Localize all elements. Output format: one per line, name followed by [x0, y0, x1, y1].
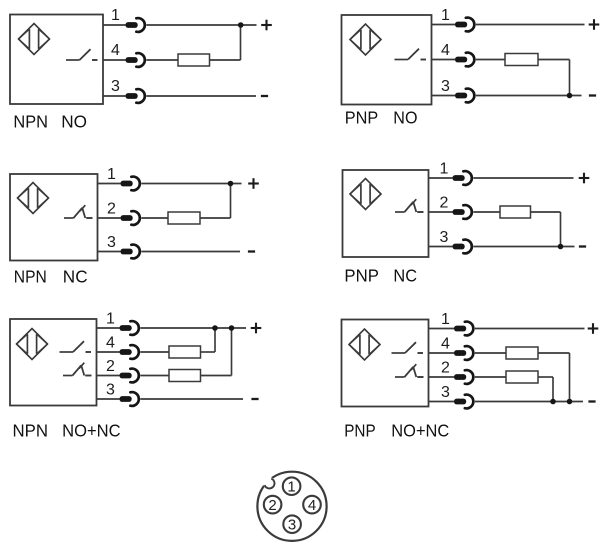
svg-text:NO+NC: NO+NC — [391, 420, 449, 440]
svg-text:NPN: NPN — [14, 267, 47, 287]
svg-text:4: 4 — [441, 42, 450, 59]
svg-text:3: 3 — [441, 384, 450, 401]
svg-text:4: 4 — [308, 497, 316, 514]
svg-text:3: 3 — [441, 78, 450, 95]
svg-text:3: 3 — [440, 229, 449, 246]
svg-text:NC: NC — [393, 265, 417, 285]
svg-text:NO+NC: NO+NC — [62, 420, 121, 440]
svg-text:PNP: PNP — [344, 420, 376, 440]
svg-text:NPN: NPN — [13, 420, 49, 440]
svg-text:2: 2 — [441, 360, 450, 377]
svg-text:PNP: PNP — [344, 265, 379, 285]
svg-text:NC: NC — [63, 267, 88, 287]
svg-text:1: 1 — [441, 311, 450, 328]
svg-text:2: 2 — [440, 195, 449, 212]
svg-text:1: 1 — [287, 479, 295, 496]
svg-text:NPN: NPN — [13, 111, 48, 131]
svg-text:NO: NO — [61, 111, 87, 131]
svg-text:3: 3 — [288, 517, 296, 534]
svg-text:3: 3 — [106, 382, 115, 399]
svg-text:3: 3 — [111, 78, 120, 95]
svg-text:3: 3 — [107, 234, 116, 251]
svg-text:2: 2 — [268, 497, 276, 514]
svg-text:1: 1 — [107, 166, 116, 183]
svg-text:2: 2 — [106, 358, 115, 375]
svg-text:2: 2 — [107, 201, 116, 218]
svg-text:1: 1 — [106, 311, 115, 328]
svg-text:1: 1 — [111, 7, 120, 24]
svg-text:1: 1 — [440, 161, 449, 178]
svg-text:1: 1 — [441, 7, 450, 24]
svg-text:4: 4 — [111, 42, 120, 59]
svg-text:PNP: PNP — [345, 107, 379, 127]
svg-text:NO: NO — [393, 107, 417, 127]
svg-text:4: 4 — [441, 336, 450, 353]
svg-text:4: 4 — [106, 335, 115, 352]
